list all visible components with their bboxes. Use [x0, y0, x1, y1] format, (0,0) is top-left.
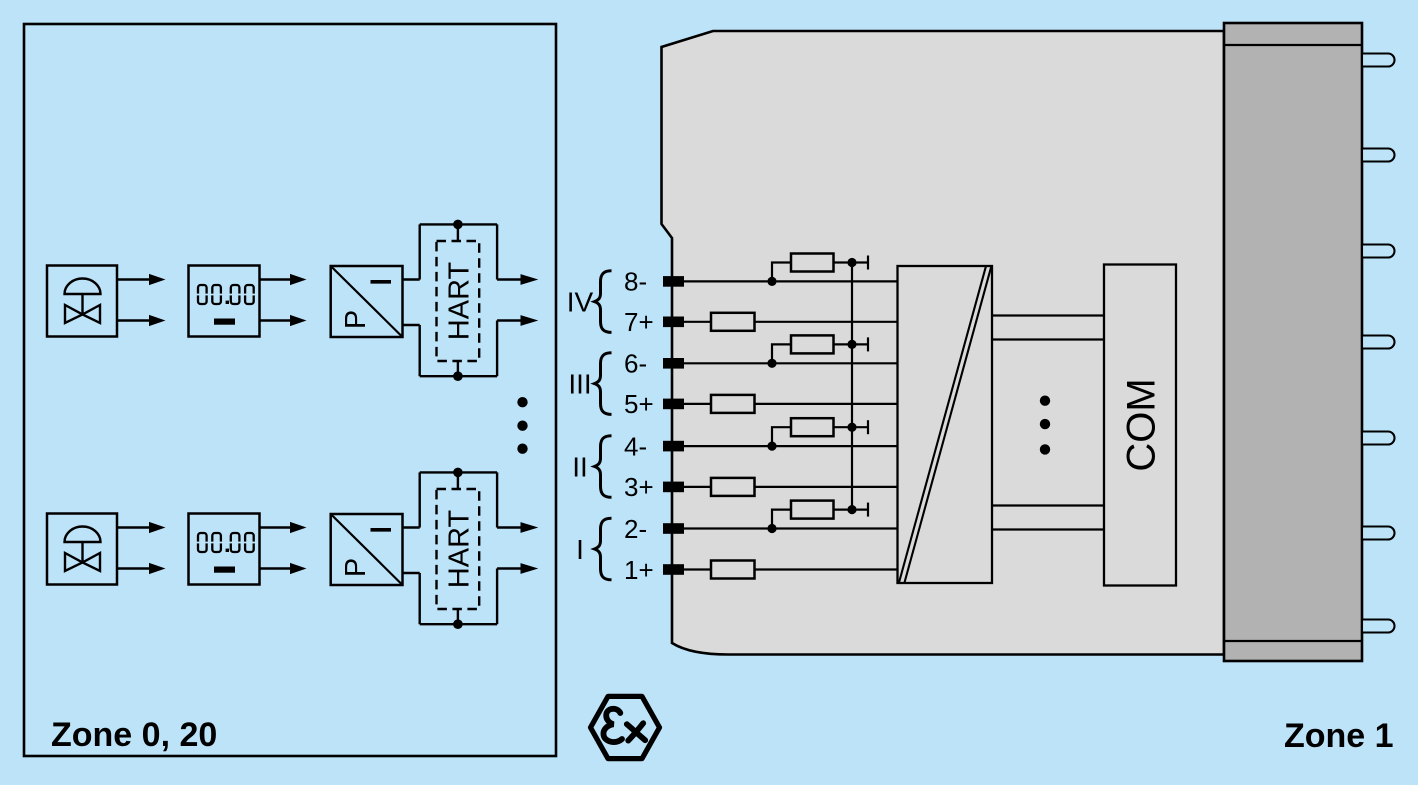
termination tick channel 2-	[867, 503, 869, 517]
arrow from display box row1	[260, 274, 307, 285]
svg-text:5+: 5+	[624, 389, 654, 419]
bus junction dot channel 6-	[847, 340, 856, 349]
wire resistor to bus channel 2-	[834, 509, 869, 511]
connector pin 4	[1362, 336, 1395, 349]
terminal 2-	[663, 523, 684, 534]
wire P/I upper output row1	[403, 278, 420, 280]
junction dot channel 2-	[767, 524, 776, 533]
display box row1	[189, 266, 260, 337]
svg-text:HART: HART	[443, 510, 475, 589]
display dash segment row2	[214, 567, 235, 573]
connector pin 1	[1362, 54, 1395, 67]
bus junction dot channel 2-	[847, 505, 856, 514]
wire P/I upper output row2	[403, 526, 420, 528]
brace group III	[595, 353, 612, 415]
svg-text:P: P	[340, 310, 372, 329]
svg-text:4-: 4-	[624, 431, 647, 461]
valve actuator symbol row2	[65, 526, 101, 571]
module housing body	[662, 31, 1225, 655]
wire terminal 3+ to isolator	[682, 486, 898, 488]
HART dashed box row2	[437, 489, 480, 609]
brace group IV	[595, 271, 612, 333]
output arrow row2	[497, 522, 538, 533]
common bus wire	[851, 263, 853, 510]
connector bottom strip line	[1224, 640, 1362, 642]
wire jog channel 2-	[772, 510, 791, 529]
junction dot bottom row2	[453, 619, 463, 629]
stub to HART bottom row2	[457, 609, 459, 625]
terminal 1+	[663, 564, 684, 575]
resistor channel 8-	[791, 254, 834, 272]
arrow from display box row2	[260, 522, 307, 533]
svg-text:III: III	[568, 369, 591, 400]
wire jog channel 6-	[772, 344, 791, 363]
connector pin 7	[1362, 620, 1395, 633]
resistor channel 4-	[791, 418, 834, 436]
svg-text:COM: COM	[1119, 378, 1163, 471]
HART loop right wires row2	[496, 472, 498, 624]
svg-text:3+: 3+	[624, 472, 654, 502]
termination tick channel 8-	[867, 256, 869, 270]
output arrow row2	[497, 563, 538, 574]
terminal 4-	[663, 441, 684, 452]
HART loop top rail row2	[420, 471, 497, 473]
wire terminal 4- to isolator	[682, 445, 898, 447]
Ex epsilon glyph	[603, 709, 622, 742]
svg-text:IV: IV	[567, 287, 594, 318]
valve actuator symbol row1	[65, 279, 101, 324]
wire terminal 8- to isolator	[682, 280, 898, 282]
display digits 00.00 row1	[196, 285, 255, 304]
terminal 7+	[663, 317, 684, 328]
bus junction dot channel 4-	[847, 423, 856, 432]
display dash segment row1	[214, 319, 235, 325]
stub to HART top row2	[457, 472, 459, 490]
termination tick channel 4-	[867, 420, 869, 434]
svg-text:7+: 7+	[624, 307, 654, 337]
junction dot bottom row1	[453, 371, 463, 381]
wire resistor to bus channel 4-	[834, 426, 869, 428]
svg-text:I: I	[576, 534, 584, 565]
wire isolator to COM	[992, 338, 1104, 340]
Zone 0/20 boundary box	[24, 24, 556, 756]
svg-text:P: P	[340, 558, 372, 577]
isolation diagonal lines	[899, 267, 991, 583]
wire terminal 2- to isolator	[682, 527, 898, 529]
connector top strip line	[1224, 44, 1362, 46]
termination tick channel 6-	[867, 337, 869, 351]
brace group II	[595, 436, 612, 498]
HART dashed box row1	[437, 241, 480, 361]
junction dot channel 4-	[767, 442, 776, 451]
terminal 5+	[663, 399, 684, 410]
terminal 6-	[663, 358, 684, 369]
junction dot top row1	[453, 220, 463, 230]
wire terminal 5+ to isolator	[682, 403, 898, 405]
ellipsis dots module	[1040, 396, 1050, 455]
resistor channel 2-	[791, 501, 834, 519]
junction dot channel 8-	[767, 277, 776, 286]
COM block	[1104, 265, 1176, 586]
junction dot channel 6-	[767, 359, 776, 368]
wire terminal 1+ to isolator	[682, 568, 898, 570]
HART loop right wires row1	[496, 224, 498, 376]
junction dot top row2	[453, 468, 463, 478]
arrow from display box row1	[260, 315, 307, 326]
wire isolator to COM	[992, 504, 1104, 506]
brace group I	[595, 518, 612, 580]
arrow from valve box row2	[117, 563, 166, 574]
svg-text:Zone 0, 20: Zone 0, 20	[51, 716, 217, 754]
wire jog channel 8-	[772, 263, 791, 282]
stub to HART bottom row1	[457, 361, 459, 377]
output arrow row1	[497, 315, 538, 326]
series resistor channel 3+	[711, 478, 755, 496]
wire P/I lower output row2	[403, 572, 420, 574]
bus connector block	[1224, 23, 1362, 661]
valve box row2	[47, 514, 117, 585]
stub to HART top row1	[457, 224, 459, 242]
series resistor channel 5+	[711, 395, 755, 413]
wire P/I lower output row1	[403, 324, 420, 326]
arrow from valve box row1	[117, 274, 166, 285]
HART loop left wires row2	[419, 472, 421, 624]
display box row2	[189, 514, 260, 585]
wire jog channel 4-	[772, 427, 791, 446]
resistor channel 6-	[791, 335, 834, 353]
wire isolator to COM	[992, 528, 1104, 530]
svg-text:HART: HART	[443, 262, 475, 341]
connector pin 5	[1362, 432, 1395, 445]
display digits 00.00 row2	[196, 533, 255, 552]
isolation amplifier box	[898, 266, 993, 583]
HART loop top rail row1	[420, 223, 497, 225]
HART loop bottom rail row1	[420, 375, 497, 377]
connector pin 6	[1362, 527, 1395, 540]
arrow from valve box row1	[117, 315, 166, 326]
series resistor channel 7+	[711, 313, 755, 331]
ellipsis dots left	[517, 397, 527, 454]
connector pin 3	[1362, 245, 1395, 258]
wire resistor to bus channel 8-	[834, 261, 869, 263]
output arrow row1	[497, 274, 538, 285]
P/I converter box row1	[331, 266, 403, 337]
svg-text:2-: 2-	[624, 514, 647, 544]
connector pin 2	[1362, 149, 1395, 162]
svg-text:Zone 1: Zone 1	[1284, 717, 1394, 755]
terminal 8-	[663, 276, 684, 287]
label I row2	[371, 528, 392, 532]
wire terminal 6- to isolator	[682, 362, 898, 364]
terminal 3+	[663, 482, 684, 493]
Ex x glyph	[627, 723, 645, 740]
series resistor channel 1+	[711, 561, 755, 579]
HART loop bottom rail row2	[420, 623, 497, 625]
wire isolator to COM	[992, 314, 1104, 316]
svg-text:II: II	[572, 452, 588, 483]
svg-text:1+: 1+	[624, 555, 654, 585]
label I row1	[371, 280, 392, 284]
arrow from display box row2	[260, 563, 307, 574]
P/I converter box row2	[331, 514, 403, 585]
wire terminal 7+ to isolator	[682, 321, 898, 323]
valve box row1	[47, 266, 117, 337]
wire resistor to bus channel 6-	[834, 343, 869, 345]
bus junction dot channel 8-	[847, 258, 856, 267]
svg-text:8-: 8-	[624, 267, 647, 297]
HART loop left wires row1	[419, 224, 421, 376]
arrow from valve box row2	[117, 522, 166, 533]
svg-text:6-: 6-	[624, 349, 647, 379]
Ex hexagon symbol	[591, 696, 660, 758]
